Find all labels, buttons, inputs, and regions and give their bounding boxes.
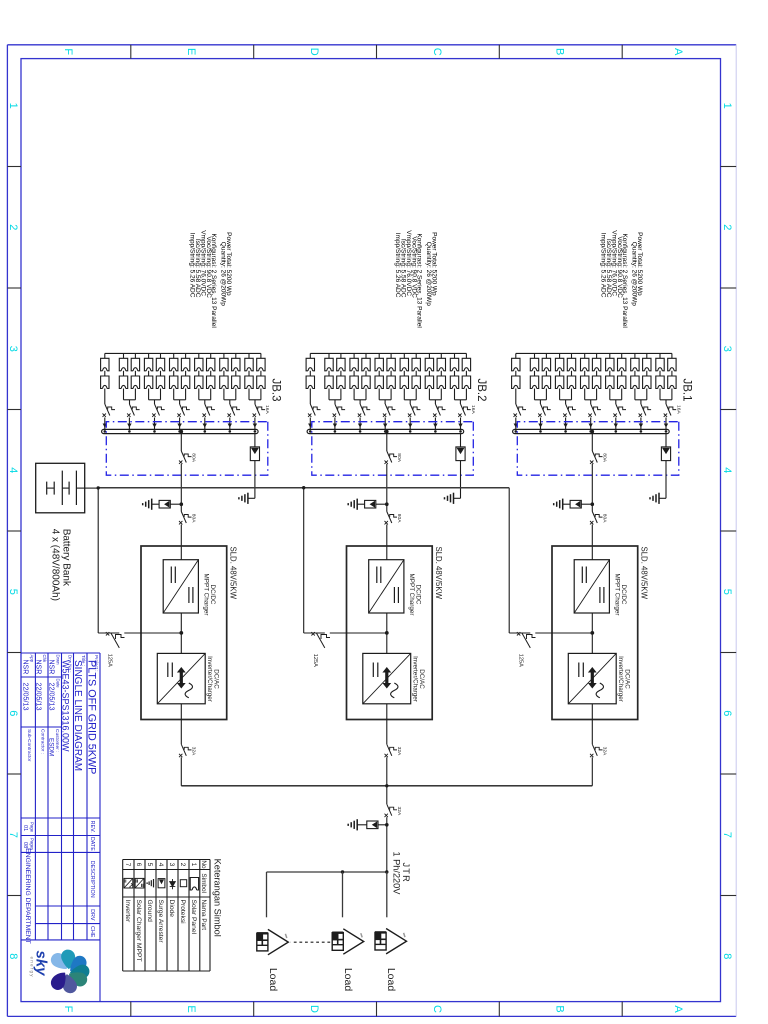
- svg-text:SINGLE LINE DIAGRAM: SINGLE LINE DIAGRAM: [72, 660, 83, 771]
- JB.2 string row 2: wire + 2 PV modules: [450, 353, 458, 399]
- wire fuse to DC busbar with arrowhead: [253, 418, 257, 433]
- svg-text:Inverter/Charger: Inverter/Charger: [411, 656, 418, 702]
- label DC/AC Inverter/Charger: [206, 656, 220, 702]
- svg-text:80A: 80A: [191, 453, 197, 462]
- wire to AC bus: [180, 757, 182, 786]
- JB.2 main DC output wire + dot on busbar: [385, 430, 389, 451]
- load house 2: [332, 929, 364, 954]
- JB.3 pair merge bracket + wire to fuse: [249, 400, 261, 404]
- JB.3 pair merge bracket + wire to fuse: [224, 400, 236, 404]
- svg-text:W5E43-SPS1316.00W: W5E43-SPS1316.00W: [61, 660, 71, 752]
- svg-text:MPPT Charger: MPPT Charger: [408, 574, 415, 616]
- border zone letters A-F left and right: [62, 48, 684, 1014]
- svg-text:01: 01: [22, 825, 28, 831]
- svg-text:22/05/13: 22/05/13: [22, 683, 31, 711]
- junction box JB.1 boundary (dash-dot): [517, 422, 679, 476]
- svg-text:JB.2: JB.2: [475, 379, 487, 402]
- JB.2 string row 7: wire + 2 PV modules: [387, 353, 395, 399]
- JB.3 string row 8: wire + 2 PV modules: [170, 353, 178, 399]
- JB.1 DC combiner busbar: [513, 429, 670, 433]
- JB.1 pair merge bracket + wire to fuse: [585, 400, 597, 404]
- svg-text:16A: 16A: [264, 405, 270, 414]
- JB.2 string row 12: wire + 2 PV modules: [325, 353, 333, 399]
- JB.1 string fuse-disconnect: [563, 404, 576, 417]
- JB.3 string row 1: wire + 2 PV modules: [257, 353, 265, 399]
- svg-text:MPPT Charger: MPPT Charger: [613, 574, 620, 616]
- junction dot bus / JB.2 tap: [302, 486, 305, 489]
- JB.2 string fuse-disconnect: [308, 404, 321, 417]
- svg-text:Sub-Contractor: Sub-Contractor: [26, 729, 32, 762]
- svg-text:B: B: [554, 1005, 566, 1012]
- svg-text:C: C: [431, 48, 443, 56]
- JB.3 pair merge bracket + wire to fuse: [174, 400, 186, 404]
- legend symbol: proteksi (fuse box): [180, 880, 186, 887]
- JB.3 string row 5: wire + 2 PV modules: [207, 353, 215, 399]
- DC/DC MPPT charger converter U2A: [369, 560, 404, 613]
- surge arrester on DC output: [152, 500, 182, 508]
- svg-text:ENGINEERING DEPARTMENT: ENGINEERING DEPARTMENT: [24, 848, 31, 944]
- JB.2 string row 6: wire + 2 PV modules: [400, 353, 408, 399]
- svg-text:7: 7: [721, 832, 733, 838]
- wire fuse to DC busbar with arrowhead: [563, 418, 567, 433]
- JB.1 string row 3: wire + 2 PV modules: [643, 353, 651, 399]
- svg-text:1 Ph/220V: 1 Ph/220V: [392, 852, 402, 896]
- JB.1 string row 8: wire + 2 PV modules: [581, 353, 589, 399]
- svg-text:MPPT Charger: MPPT Charger: [202, 574, 209, 616]
- JB.1 string row 2: wire + 2 PV modules: [656, 353, 664, 399]
- legend symbol: solar charger MPPT (DC/DC): [135, 878, 144, 888]
- junction dot distribution / load 2: [341, 870, 344, 873]
- svg-text:1: 1: [7, 103, 19, 109]
- svg-text:NSR: NSR: [22, 660, 29, 675]
- JB.2 DC combiner busbar: [307, 429, 464, 433]
- ground symbol (DC output arrester): [554, 499, 563, 510]
- svg-text:SLD. 48V/5KW: SLD. 48V/5KW: [639, 547, 648, 600]
- legend symbol: solar panel: [190, 878, 198, 891]
- svg-text:1: 1: [721, 103, 733, 109]
- company logo: petal pinwheel: [48, 949, 90, 994]
- JB.2 string row 1: wire + 2 PV modules: [462, 353, 470, 399]
- svg-text:Simbol: Simbol: [200, 873, 207, 893]
- legend symbol: inverter (DC/AC): [124, 878, 133, 888]
- svg-text:Drwn: Drwn: [56, 655, 61, 666]
- JB.3 pair merge bracket + wire to fuse: [199, 400, 211, 404]
- svg-text:80A: 80A: [602, 453, 608, 462]
- surge arrester on DC output: [357, 500, 387, 508]
- JB.3 string fuse-disconnect: [228, 404, 241, 417]
- junction dot DC output arrester tap: [180, 502, 184, 506]
- DC/DC MPPT charger converter U1A: [574, 560, 609, 613]
- svg-text:A: A: [672, 48, 684, 56]
- JB.3 pair merge bracket + wire to fuse: [124, 400, 136, 404]
- svg-text:: 26 @200Wp: : 26 @200Wp: [631, 266, 638, 306]
- label DC/AC Inverter/Charger: [617, 656, 631, 702]
- svg-text:NSR: NSR: [35, 660, 42, 675]
- svg-text:JB.3: JB.3: [269, 379, 281, 402]
- SLD inverter/charger unit enclosure: [552, 546, 638, 720]
- JB.1 string row 7: wire + 2 PV modules: [592, 353, 600, 399]
- JB.3 string row 6: wire + 2 PV modules: [195, 353, 203, 399]
- AC breaker 32A (JB.3 inverter output): [179, 744, 197, 757]
- JB.3 busbar surge arrester: [248, 434, 260, 499]
- ground symbol (JB.1 arrester): [650, 493, 659, 504]
- svg-text:SLD. 48V/5KW: SLD. 48V/5KW: [434, 547, 443, 600]
- svg-text:6: 6: [721, 710, 733, 716]
- wire DC link: [180, 613, 182, 653]
- svg-text:Chk: Chk: [42, 655, 47, 663]
- JB.1 string row 1: wire + 2 PV modules: [668, 353, 676, 399]
- svg-text:125A: 125A: [106, 654, 112, 667]
- JB.1 pair merge bracket + wire to fuse: [535, 400, 547, 404]
- svg-text:sky: sky: [33, 951, 50, 977]
- svg-text:DC/AC: DC/AC: [623, 669, 630, 689]
- label DC/DC MPPT Charger: [408, 574, 422, 616]
- junction dot DC link battery tap: [590, 631, 594, 635]
- surge arrester on AC feeder: [357, 821, 387, 829]
- svg-text:32A: 32A: [602, 747, 608, 756]
- svg-text:80A: 80A: [396, 453, 402, 462]
- DC/DC MPPT charger converter U3A: [163, 560, 198, 613]
- JB.1 pair merge bracket + wire to fuse: [660, 400, 672, 404]
- JB.1 string row 12: wire + 2 PV modules: [530, 353, 538, 399]
- junction box JB.2 boundary (dash-dot): [312, 422, 474, 476]
- wire to charger enclosure: [180, 525, 182, 560]
- PV array spec text (JB.2): [394, 230, 437, 328]
- load stub wires: [267, 872, 387, 917]
- ground symbol (DC output arrester): [143, 499, 152, 510]
- JB.2 pair merge bracket + wire to fuse: [404, 400, 416, 404]
- wire to charger enclosure: [591, 525, 593, 560]
- JB.2 string row 9: wire + 2 PV modules: [362, 353, 370, 399]
- JB.1 string fuse-disconnect: [538, 404, 551, 417]
- SLD inverter/charger unit enclosure: [141, 546, 227, 720]
- JB.3 DC breaker 80A (inside junction box): [179, 451, 197, 464]
- JB.1 string fuse-disconnect: [588, 404, 601, 417]
- JB.3 string fuse-disconnect: [103, 404, 116, 417]
- wire to AC bus: [386, 757, 388, 786]
- PV array group JB.2 : collector bus wire: [310, 352, 466, 354]
- wire fuse to DC busbar with arrowhead: [177, 418, 182, 433]
- wire inverter AC output: [180, 704, 182, 745]
- label DC/DC MPPT Charger: [613, 574, 627, 616]
- JB.1 main DC output wire + dot on busbar: [591, 430, 595, 451]
- svg-text:6: 6: [135, 863, 142, 867]
- battery tap fuse-disconnect 125A (JB.2): [311, 632, 330, 648]
- ground symbol (AC feeder arrester): [348, 819, 357, 830]
- PV array spec text (JB.3): [189, 230, 232, 328]
- JB.2 string row 4: wire + 2 PV modules: [425, 353, 433, 399]
- JB.3 string row 12: wire + 2 PV modules: [119, 353, 127, 399]
- svg-text:Quantity: Quantity: [220, 242, 227, 267]
- JB.3 string row 7: wire + 2 PV modules: [181, 353, 189, 399]
- wire fuse to DC busbar with arrowhead: [308, 418, 312, 433]
- wire inverter AC output: [591, 704, 593, 745]
- JB.1 string fuse-disconnect: [514, 404, 527, 417]
- JB.2 DC breaker 80A (inside junction box): [385, 451, 403, 464]
- svg-text:8: 8: [7, 953, 19, 959]
- JB.2 string fuse-disconnect: [433, 404, 445, 417]
- JB.2 pair merge bracket + wire to fuse: [354, 400, 366, 404]
- svg-text:App: App: [29, 655, 34, 663]
- JB.3 string row 11: wire + 2 PV modules: [131, 353, 139, 399]
- svg-text:energy: energy: [30, 957, 35, 978]
- legend symbol: ground: [147, 879, 153, 887]
- wire fuse to DC busbar with arrowhead: [333, 418, 337, 433]
- wire fuse to DC busbar with arrowhead: [538, 418, 542, 433]
- legend symbol: surge arrester: [158, 879, 165, 888]
- svg-text:32A: 32A: [191, 747, 197, 756]
- JB.2 string row 13: wire + 2 PV modules: [306, 353, 314, 404]
- svg-text:2: 2: [179, 863, 186, 867]
- svg-text:C: C: [431, 1005, 443, 1013]
- svg-text:125A: 125A: [312, 654, 318, 667]
- JB.3 string row 13: wire + 2 PV modules: [101, 353, 109, 404]
- svg-text:DC/AC: DC/AC: [418, 669, 425, 689]
- svg-text:32A: 32A: [396, 807, 402, 816]
- JB.3 DC combiner busbar: [102, 429, 259, 433]
- wire fuse to DC busbar with arrowhead: [127, 418, 131, 433]
- svg-text:5: 5: [7, 589, 19, 595]
- JB.3 main DC output wire + dot on busbar: [180, 430, 184, 451]
- JB.1 string row 11: wire + 2 PV modules: [542, 353, 550, 399]
- battery bank BT1: [36, 463, 85, 513]
- JB.3 string row 2: wire + 2 PV modules: [245, 353, 253, 399]
- label DC/AC Inverter/Charger: [411, 656, 425, 702]
- svg-text:E: E: [185, 48, 197, 55]
- battery DC bus (vertical): [98, 487, 509, 489]
- svg-text:: 5.26 ADC: : 5.26 ADC: [394, 266, 401, 298]
- svg-text:F: F: [62, 48, 74, 55]
- wire to charger enclosure: [386, 525, 388, 560]
- svg-text:Impp/String: Impp/String: [394, 233, 401, 267]
- svg-text:7: 7: [124, 863, 131, 867]
- svg-text:E: E: [185, 1005, 197, 1012]
- JB.3 string row 9: wire + 2 PV modules: [156, 353, 164, 399]
- battery DC-link tap wire (JB.2): [304, 488, 387, 633]
- SLD inverter/charger unit enclosure: [347, 546, 433, 720]
- junction dot DC link battery tap: [385, 631, 389, 635]
- JB.3 pair merge bracket + wire to fuse: [149, 400, 161, 404]
- PV array group JB.1 : collector bus wire: [516, 352, 672, 354]
- load house 1: [257, 929, 289, 954]
- svg-text:D: D: [308, 48, 320, 56]
- svg-text:: 5.26 ADC: : 5.26 ADC: [189, 266, 196, 298]
- battery DC-link tap wire (JB.1): [509, 488, 592, 633]
- svg-text:Load: Load: [267, 968, 279, 992]
- ground symbol (JB.3 arrester): [239, 493, 248, 504]
- JB.2 DC fuse-disconnect 80A: [385, 512, 403, 525]
- svg-text:Inverter: Inverter: [124, 900, 131, 923]
- wire breaker to arrester tap: [386, 817, 388, 872]
- svg-text:D: D: [308, 1005, 320, 1013]
- svg-text:Nama Part: Nama Part: [200, 900, 207, 931]
- wire to AC bus: [591, 757, 593, 786]
- svg-text:DC/DC: DC/DC: [209, 585, 216, 605]
- svg-text:REV.: REV.: [89, 821, 95, 833]
- svg-text:DATE: DATE: [89, 837, 95, 851]
- svg-text:4: 4: [721, 467, 733, 473]
- wire breaker to arrester tap: [386, 464, 388, 512]
- svg-text:Load: Load: [385, 968, 397, 992]
- PV array group JB.3 : collector bus wire: [105, 352, 261, 354]
- svg-text:Keterangan Simbol: Keterangan Simbol: [213, 859, 223, 937]
- wire fuse to DC busbar with arrowhead: [152, 418, 157, 433]
- feeder wire from AC bus: [386, 786, 388, 804]
- svg-text:ESDM: ESDM: [48, 738, 55, 756]
- junction dot distribution / load 3: [385, 870, 388, 873]
- wire fuse to DC busbar with arrowhead: [383, 418, 387, 433]
- svg-text:4: 4: [7, 467, 19, 473]
- svg-text:Load: Load: [342, 968, 354, 992]
- junction dot DC output arrester tap: [385, 502, 389, 506]
- junction box JB.3 boundary (dash-dot): [106, 422, 268, 476]
- wire fuse to DC busbar with arrowhead: [614, 418, 618, 433]
- wire fuse to DC busbar with arrowhead: [514, 418, 518, 433]
- svg-text:80A: 80A: [396, 514, 402, 523]
- svg-text:NSR: NSR: [48, 660, 55, 675]
- JB.2 string fuse-disconnect: [333, 404, 345, 417]
- svg-text:DC/AC: DC/AC: [212, 669, 219, 689]
- wire fuse to DC busbar with arrowhead: [664, 418, 668, 433]
- svg-text:Impp/String: Impp/String: [600, 233, 607, 267]
- svg-text:Quantity: Quantity: [631, 242, 638, 267]
- surge arrester on DC output: [563, 500, 593, 508]
- svg-text:Page: Page: [30, 822, 35, 833]
- JB.2 string fuse-disconnect: [383, 404, 396, 417]
- JB.3 string fuse-disconnect 16A: [253, 404, 271, 417]
- wire fuse to DC busbar with arrowhead: [639, 418, 643, 433]
- junction dot DC output arrester tap: [591, 502, 595, 506]
- svg-text:Quantity: Quantity: [425, 242, 432, 267]
- svg-text:Inverter/Charger: Inverter/Charger: [206, 656, 213, 702]
- wire fuse to DC busbar with arrowhead: [103, 418, 107, 433]
- svg-text:80A: 80A: [602, 514, 608, 523]
- JB.3 string fuse-disconnect: [177, 404, 189, 417]
- wire fuse to DC busbar with arrowhead: [358, 418, 362, 433]
- svg-text:80A: 80A: [191, 514, 197, 523]
- JB.3 string fuse-disconnect: [203, 404, 215, 417]
- JB.1 string fuse-disconnect 16A: [664, 404, 682, 417]
- border zone numbers 1-8 top and bottom: [7, 103, 733, 960]
- wire fuse to DC busbar with arrowhead: [458, 418, 462, 433]
- JB.2 pair merge bracket + wire to fuse: [455, 400, 467, 404]
- title block: [21, 653, 100, 1002]
- JB.1 pair merge bracket + wire to fuse: [610, 400, 622, 404]
- svg-text:DRV: DRV: [89, 909, 95, 921]
- svg-text:DC/DC: DC/DC: [620, 585, 627, 605]
- junction dot DC link battery tap: [179, 631, 183, 635]
- JB.3 string fuse-disconnect: [152, 404, 165, 417]
- svg-text:Solar Charger MPPT: Solar Charger MPPT: [135, 900, 142, 962]
- svg-text:32A: 32A: [396, 747, 402, 756]
- wire inverter AC output: [386, 704, 388, 745]
- svg-text:22/05/13: 22/05/13: [48, 683, 57, 711]
- label DC/DC MPPT Charger: [202, 574, 216, 616]
- svg-text:7: 7: [7, 832, 19, 838]
- PV array spec text (JB.1): [600, 230, 643, 328]
- load distribution wire (vertical): [267, 871, 387, 873]
- title block texts: [22, 655, 99, 944]
- svg-text:CHE: CHE: [89, 926, 95, 938]
- JB.1 string row 5: wire + 2 PV modules: [618, 353, 626, 399]
- JB.3 DC fuse-disconnect 80A: [179, 512, 197, 525]
- AC breaker 32A (JB.1 inverter output): [590, 744, 608, 757]
- svg-text:Proteksi: Proteksi: [179, 900, 186, 925]
- wire battery to bus: [85, 487, 99, 489]
- ground symbol (DC output arrester): [348, 499, 357, 510]
- JB.3 string row 4: wire + 2 PV modules: [220, 353, 228, 399]
- svg-text:: 26 @200Wp: : 26 @200Wp: [220, 266, 227, 306]
- JB.1 pair merge bracket + wire to fuse: [635, 400, 647, 404]
- JB.2 pair merge bracket + wire to fuse: [379, 400, 391, 404]
- JB.1 string fuse-disconnect: [639, 404, 652, 417]
- JB.2 string row 5: wire + 2 PV modules: [412, 353, 420, 399]
- JB.1 string row 9: wire + 2 PV modules: [567, 353, 575, 399]
- junction dot bus / battery: [97, 486, 100, 489]
- svg-text:6: 6: [7, 710, 19, 716]
- svg-text:4: 4: [157, 863, 164, 867]
- svg-text:16A: 16A: [470, 405, 476, 414]
- wire fuse to DC busbar with arrowhead: [203, 418, 208, 433]
- JB.3 string row 10: wire + 2 PV modules: [144, 353, 152, 399]
- svg-text:2: 2: [7, 224, 19, 230]
- svg-text:3: 3: [168, 863, 175, 867]
- svg-text:: 26 @200Wp: : 26 @200Wp: [425, 266, 432, 306]
- battery tap fuse-disconnect 125A (JB.1): [517, 632, 536, 648]
- svg-text:Battery Bank: Battery Bank: [61, 529, 72, 587]
- JB.1 string row 4: wire + 2 PV modules: [631, 353, 639, 399]
- svg-text:2: 2: [721, 224, 733, 230]
- svg-text:22/05/13: 22/05/13: [35, 683, 44, 711]
- svg-text:5: 5: [146, 863, 153, 867]
- svg-text:No: No: [200, 860, 207, 869]
- ground symbol (JB.2 arrester): [445, 493, 454, 504]
- AC bus (vertical): [181, 785, 592, 787]
- svg-text:Surge Arrester: Surge Arrester: [157, 900, 164, 944]
- label JTR 1 Ph/220V: [392, 852, 412, 896]
- JB.1 string row 13: wire + 2 PV modules: [512, 353, 520, 404]
- wire fuse to DC busbar with arrowhead: [228, 418, 232, 433]
- wire DC link: [386, 613, 388, 653]
- JB.2 string fuse-disconnect: [358, 404, 370, 417]
- svg-text:3: 3: [7, 346, 19, 352]
- wire fuse to DC busbar with arrowhead: [433, 418, 437, 433]
- junction dot feeder arrester tap: [385, 823, 389, 827]
- svg-text:DC/DC: DC/DC: [414, 585, 421, 605]
- label Battery Bank 4 x (48V/800Ah): [50, 529, 72, 601]
- svg-text:8: 8: [721, 953, 733, 959]
- JB.2 string row 8: wire + 2 PV modules: [375, 353, 383, 399]
- svg-text:SLD. 48V/5KW: SLD. 48V/5KW: [228, 547, 237, 600]
- svg-text:PLTS OFF GRID 5KWP: PLTS OFF GRID 5KWP: [86, 660, 98, 774]
- svg-text:Ground: Ground: [146, 900, 153, 923]
- svg-text:Diode: Diode: [168, 900, 175, 918]
- JB.2 string row 10: wire + 2 PV modules: [350, 353, 358, 399]
- JB.3 string fuse-disconnect: [127, 404, 140, 417]
- svg-text:5: 5: [721, 589, 733, 595]
- DC/AC inverter/charger U2B: [363, 653, 411, 703]
- AC breaker 32A (JB.2 inverter output): [385, 744, 403, 757]
- wire fuse to DC busbar with arrowhead: [408, 418, 412, 433]
- wire breaker to arrester tap: [180, 464, 182, 512]
- svg-text:125A: 125A: [517, 654, 523, 667]
- svg-text:4 x (48V/800Ah): 4 x (48V/800Ah): [50, 529, 61, 601]
- svg-text:16A: 16A: [675, 405, 681, 414]
- dashed more-loads indicator: [291, 941, 330, 943]
- JB.1 busbar surge arrester: [659, 434, 671, 499]
- JB.2 busbar surge arrester: [454, 434, 466, 499]
- wire fuse to DC busbar with arrowhead: [589, 418, 593, 433]
